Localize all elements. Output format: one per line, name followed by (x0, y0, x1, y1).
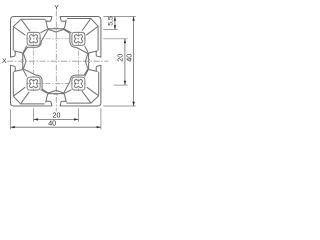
svg-text:5,5: 5,5 (107, 16, 114, 26)
svg-text:20: 20 (116, 54, 125, 62)
dimension 40 bottom (11, 126, 101, 128)
extension lines bottom (11, 108, 101, 129)
svg-text:X: X (2, 58, 7, 65)
corner cavity bottom-left (13, 46, 44, 104)
profile outer contour with four T-slots (11, 17, 101, 107)
screw channel NW (30, 35, 38, 43)
screw boss SW outline (27, 77, 40, 90)
dimension 40 right (133, 17, 135, 107)
boss centerline vertical left (33, 32, 35, 92)
dimension 5,5 right (114, 17, 116, 30)
screw boss NE outline (72, 32, 85, 45)
extension lines right (103, 17, 136, 107)
corner cavity bottom-right (41, 72, 99, 103)
corner cavity top-right (67, 19, 98, 77)
boss centerline horizontal top (27, 38, 86, 40)
screw channel NE (74, 35, 82, 43)
svg-text:40: 40 (124, 54, 133, 62)
corner cavity top-left (13, 19, 71, 50)
screw channel SE (74, 80, 82, 88)
boss centerline vertical right (77, 32, 79, 92)
svg-text:40: 40 (48, 118, 56, 127)
centerline X (horizontal axis) (7, 60, 108, 62)
centerline Y (vertical axis) (55, 11, 57, 112)
screw boss SE outline (72, 77, 85, 90)
screw boss NW outline (27, 32, 40, 45)
screw channel SW (30, 80, 38, 88)
central core void (23, 29, 88, 93)
boss centerline horizontal bottom (27, 83, 86, 85)
dimension 20 bottom (34, 118, 79, 120)
svg-text:Y: Y (54, 5, 59, 12)
dimension 20 right (124, 39, 126, 85)
